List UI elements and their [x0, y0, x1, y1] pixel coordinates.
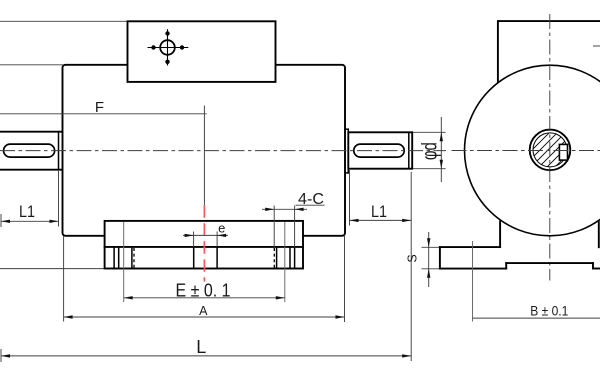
cut-off tick right edge — [593, 45, 600, 47]
slot centre line left (E extension) — [123, 222, 125, 302]
shaft keyway — [559, 144, 567, 160]
S dimension — [422, 232, 442, 287]
svg-text:F: F — [95, 99, 104, 116]
phi-d dimension — [413, 117, 446, 182]
wire: cut-off thin line aligned with base bottom — [0, 268, 105, 270]
shaft circle outer — [530, 130, 571, 171]
L1 left dimension — [1, 170, 59, 227]
svg-text:e: e — [218, 221, 225, 236]
slot centre line right (E extension) — [284, 222, 286, 302]
svg-text:L1: L1 — [19, 202, 35, 221]
svg-text:L: L — [196, 337, 206, 357]
wire: cut-off thin line aligned with body top edge — [0, 64, 63, 66]
svg-text:L1: L1 — [371, 202, 387, 221]
base mid line — [105, 246, 303, 248]
base slot edge — [118, 247, 120, 269]
right shaft end chamfer line — [408, 132, 410, 168]
4-C dimension — [262, 206, 307, 248]
L dimension — [1, 349, 411, 362]
right shaft — [348, 132, 412, 168]
B dimension — [473, 317, 600, 319]
4-C label with underline — [296, 191, 325, 208]
base slot edge — [193, 247, 195, 269]
svg-text:A: A — [199, 304, 208, 318]
end view horizontal centerline — [452, 150, 600, 152]
shaft hatching — [506, 106, 600, 204]
L1 right dimension — [350, 170, 412, 361]
base slot edge — [216, 247, 218, 269]
end view body circle — [465, 65, 600, 236]
wire: cut-off thin line top-left aligned with connector box top — [0, 20, 128, 22]
left shaft — [0, 132, 63, 170]
end view base profile — [440, 222, 600, 269]
end view vertical centerline — [549, 14, 551, 281]
end view connector box — [498, 21, 600, 83]
A dimension — [64, 236, 345, 322]
base slot edge — [289, 247, 291, 269]
red centre line — [203, 205, 205, 281]
base flange — [105, 221, 303, 269]
left shaft keyway slot — [4, 144, 55, 157]
connector crosshair symbol — [148, 29, 189, 65]
foot hole centre line (B extension) — [472, 241, 474, 322]
connector box on body — [128, 21, 276, 82]
svg-text:E ± 0. 1: E ± 0. 1 — [176, 281, 231, 301]
right shaft keyway slot — [354, 144, 404, 157]
svg-text:φd: φd — [418, 142, 441, 160]
E dimension — [124, 296, 285, 299]
hidden hole dashed line left — [133, 248, 135, 268]
shaft circle inner — [533, 133, 567, 167]
e dimension — [183, 232, 228, 248]
main body — [63, 65, 346, 236]
right shaft collar — [345, 129, 348, 173]
hidden hole dashed line right — [273, 248, 275, 268]
base slot edge — [276, 247, 278, 269]
base slot edge — [294, 247, 296, 269]
svg-text:B ± 0.1: B ± 0.1 — [530, 303, 568, 319]
base slot edge — [113, 247, 115, 269]
svg-text:S: S — [406, 254, 420, 262]
horizontal centerline side view — [0, 150, 446, 152]
F dimension line — [0, 106, 207, 206]
base slot edge — [131, 247, 133, 269]
